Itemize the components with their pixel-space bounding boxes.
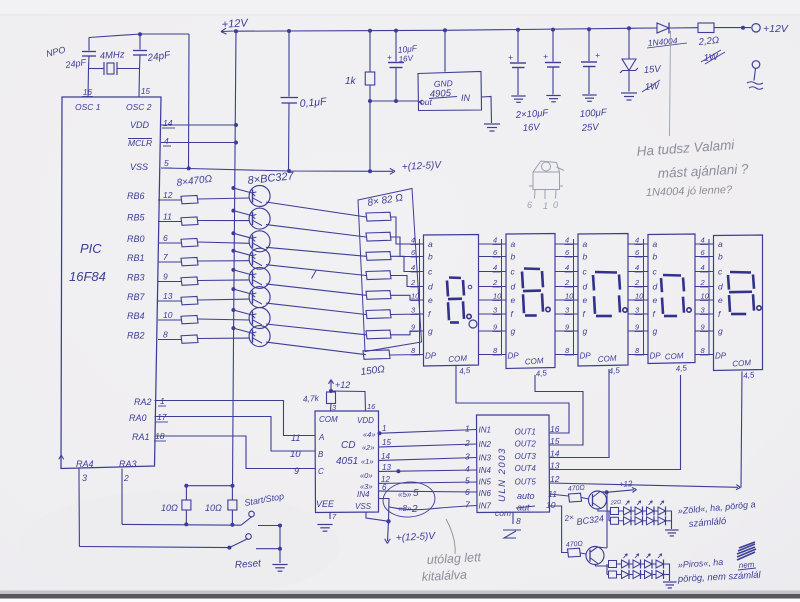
svg-text:4: 4 — [565, 236, 569, 245]
svg-text:RA2: RA2 — [134, 397, 152, 407]
svg-text:11: 11 — [291, 433, 300, 443]
svg-text:6: 6 — [382, 483, 387, 492]
svg-text:1: 1 — [543, 201, 548, 211]
node emitter RB3 — [231, 268, 235, 272]
svg-text:15: 15 — [382, 438, 391, 447]
svg-text:g: g — [428, 326, 433, 336]
capacitor 24pF left — [88, 38, 90, 51]
wire DS4 COM to OUT4 — [550, 375, 681, 470]
wire switch to gnd bus — [279, 526, 281, 549]
svg-text:8: 8 — [516, 516, 521, 526]
svg-text:2: 2 — [634, 278, 640, 287]
display DS1 pin 10 e — [414, 299, 424, 301]
svg-text:IN: IN — [461, 93, 471, 103]
crystal X1 4MHz — [103, 62, 105, 75]
transistor Q9 BC324 — [589, 491, 607, 509]
svg-text:IN2: IN2 — [479, 440, 492, 449]
pencil curve — [446, 519, 455, 554]
ground switches — [272, 564, 287, 566]
svg-text:DP: DP — [508, 352, 520, 361]
wire DS5 COM to OUT5 — [741, 372, 742, 488]
svg-text:15: 15 — [141, 87, 150, 96]
resistor base RB2 — [181, 335, 198, 343]
node 10ohm B bottom — [230, 523, 234, 527]
wire DS2 COM to OUT2 — [535, 375, 583, 445]
svg-text:8: 8 — [163, 330, 168, 340]
diode D1 1N4004 — [657, 23, 669, 33]
wire led right tie 2 — [662, 564, 670, 581]
display DS4 pin 8 DP — [628, 354, 648, 356]
svg-text:RA4: RA4 — [76, 459, 94, 469]
wire RA1 to C — [155, 436, 316, 469]
svg-text:5: 5 — [164, 158, 169, 168]
svg-text:IN3: IN3 — [479, 454, 492, 463]
wire +12V rail — [234, 28, 657, 31]
svg-text:7: 7 — [465, 500, 470, 510]
svg-text:out: out — [420, 97, 432, 107]
display DS1 body — [424, 235, 479, 367]
svg-text:4: 4 — [411, 263, 415, 272]
svg-text:MCLR: MCLR — [128, 138, 152, 148]
display DS3 pin 4 c — [555, 271, 578, 273]
wire RB4 to resistor — [158, 319, 181, 321]
wire RB6 to resistor — [158, 199, 181, 201]
node VSS 1k — [368, 169, 372, 173]
svg-text:1: 1 — [160, 396, 165, 406]
node rail-c01 — [287, 29, 291, 33]
svg-text:4: 4 — [635, 236, 639, 245]
wire led left tie — [608, 511, 610, 521]
regulator U2 4905 box — [418, 72, 482, 111]
wire VEE pin — [329, 513, 331, 520]
svg-text:e: e — [428, 295, 433, 305]
svg-text:7: 7 — [163, 252, 168, 262]
svg-text:A: A — [318, 433, 324, 442]
display DS3 pin 9 g — [555, 330, 578, 332]
node emitter RB1 — [231, 249, 235, 253]
paper crease line — [670, 31, 671, 136]
svg-text:25V: 25V — [580, 122, 600, 134]
wire collector RB3 — [266, 284, 366, 295]
svg-text:VSS: VSS — [130, 162, 148, 172]
svg-text:VSS: VSS — [355, 502, 372, 511]
svg-text:utólag lett: utólag lett — [426, 550, 481, 567]
wire crystal top — [89, 34, 189, 38]
pic left edge arrow mark — [61, 455, 64, 459]
ground leds red — [663, 581, 677, 583]
svg-text:b: b — [511, 252, 516, 262]
transistor Q7 BC327 — [249, 248, 270, 269]
display DS4 pin 9 g — [628, 330, 648, 332]
svg-text:10Ω: 10Ω — [161, 503, 178, 513]
display DS4 pin 4 a — [628, 243, 648, 245]
display DS1 pin 9 g — [414, 330, 424, 332]
transistor Q13 BC327 — [249, 287, 270, 308]
svg-text:COM: COM — [525, 356, 545, 366]
svg-text:1: 1 — [465, 424, 470, 434]
svg-text:g: g — [511, 326, 516, 336]
svg-text:VEE: VEE — [316, 499, 335, 509]
wire 4.7k to pin3 — [330, 404, 333, 412]
display DS2 pin 6 b — [479, 256, 507, 258]
svg-text:RB4: RB4 — [127, 311, 145, 321]
wire segment d to display — [390, 276, 424, 287]
svg-text:VDD: VDD — [130, 120, 150, 130]
svg-text:COM: COM — [319, 415, 338, 424]
display DS4 pin 4 c — [628, 271, 648, 273]
display DS1 pin 2 d — [414, 286, 424, 288]
svg-text:VDD: VDD — [357, 416, 374, 425]
svg-text:17: 17 — [157, 412, 167, 422]
terminal gnd — [752, 61, 760, 69]
svg-text:4: 4 — [701, 263, 705, 272]
svg-text:PIC: PIC — [80, 241, 102, 256]
wire 1k to rail7V — [369, 101, 371, 171]
svg-text:1W: 1W — [644, 81, 660, 93]
pin 8 gnd — [512, 512, 514, 524]
wire OUT5 extension — [550, 483, 739, 487]
svg-text:«3»: «3» — [360, 482, 373, 491]
svg-text:C: C — [318, 467, 324, 476]
transistor Q11 BC327 — [249, 208, 270, 229]
svg-text:RB7: RB7 — [127, 292, 146, 302]
svg-text:a: a — [511, 239, 516, 249]
svg-text:+(12-5)V: +(12-5)V — [396, 531, 437, 544]
display DS1 pin 8 DP — [414, 354, 424, 356]
display DS4 digit — [663, 274, 681, 277]
svg-text:RA0: RA0 — [129, 413, 147, 423]
to220 package sketch — [529, 161, 564, 199]
svg-text:10: 10 — [635, 292, 644, 301]
wire caps to VSS — [188, 34, 191, 168]
resistor R20 470ohm — [568, 548, 581, 557]
ic U3 CD4051 body — [315, 411, 379, 513]
display DS5 pin 4 a — [695, 243, 714, 245]
transistor Q10 BC327 — [249, 308, 270, 329]
svg-text:4MHz: 4MHz — [99, 49, 125, 62]
svg-text:IN4: IN4 — [479, 466, 492, 475]
svg-text:RB6: RB6 — [127, 191, 145, 201]
svg-text:2: 2 — [411, 504, 418, 515]
wire collector Q10 — [596, 565, 609, 567]
svg-text:a: a — [583, 239, 588, 249]
wire segment c to display — [390, 256, 424, 271]
display DS2 pin ladder — [501, 239, 503, 356]
svg-text:4,5: 4,5 — [459, 366, 472, 376]
svg-text:+: + — [508, 52, 513, 62]
svg-text:b: b — [653, 252, 658, 262]
display DS1 pin ladder — [419, 239, 421, 356]
wire RB3 to resistor — [158, 281, 181, 283]
resistor base RB4 — [181, 316, 198, 324]
resistor segment R13 — [366, 252, 391, 261]
transistor Q6 BC327 — [249, 231, 270, 252]
svg-text:g: g — [583, 326, 588, 336]
wire to ground — [279, 549, 281, 563]
svg-text:10: 10 — [546, 500, 556, 510]
wire base RB5 — [198, 220, 250, 222]
ic U1 PIC16F84 body — [61, 97, 161, 469]
ground VEE — [317, 524, 332, 526]
svg-text:4: 4 — [493, 236, 497, 245]
svg-text:5: 5 — [465, 476, 470, 486]
svg-text:16V: 16V — [398, 53, 414, 64]
bank enclosure — [358, 189, 422, 352]
svg-text:RB0: RB0 — [127, 234, 145, 244]
svg-text:16: 16 — [550, 424, 560, 434]
svg-text:18: 18 — [155, 431, 165, 441]
display DS4 decimal point — [687, 308, 691, 312]
svg-text:+: + — [595, 50, 600, 60]
svg-text:4: 4 — [635, 263, 639, 272]
wire segment a to display — [390, 217, 424, 244]
wire R19 to Q9 — [582, 498, 589, 500]
svg-text:com: com — [495, 508, 511, 518]
node emitter RB6 — [231, 186, 235, 190]
ink scribble — [737, 542, 756, 560]
display DS1 digit — [449, 276, 461, 279]
wire +12 to pin16 — [331, 391, 366, 411]
display DS3 pin 8 DP — [555, 354, 578, 356]
svg-text:15V: 15V — [643, 64, 662, 76]
svg-text:a: a — [428, 239, 433, 249]
wire segment b to display — [390, 237, 424, 257]
wire 2.2ohm to terminal — [714, 27, 751, 29]
wire segment g to display — [390, 331, 424, 335]
display DS4 body — [648, 234, 695, 364]
svg-text:OSC 2: OSC 2 — [126, 102, 152, 112]
wire DS3 COM to OUT3 — [550, 369, 610, 458]
svg-text:10Ω: 10Ω — [205, 503, 222, 513]
svg-text:RB3: RB3 — [127, 273, 145, 283]
display DS3 decimal point — [623, 308, 627, 312]
svg-text:10: 10 — [411, 292, 420, 301]
svg-text:«8»: «8» — [398, 504, 412, 513]
display DS4 pin 3 f — [628, 313, 648, 315]
svg-text:4: 4 — [164, 136, 169, 146]
node pullup bar left — [184, 484, 188, 488]
display DS4 pin 2 d — [628, 286, 648, 288]
wire base RB1 — [198, 260, 250, 262]
display DS5 body — [714, 235, 763, 371]
display DS5 pin 4 c — [695, 271, 714, 273]
wire start/stop row — [122, 523, 241, 526]
resistor segment R17 — [366, 330, 391, 339]
svg-text:14: 14 — [550, 449, 560, 459]
svg-text:2: 2 — [492, 278, 498, 287]
resistor base RB1 — [181, 258, 198, 266]
capacitor C2b 10uF — [552, 30, 554, 62]
wire ch5 to IN6 — [379, 491, 477, 492]
transistor Q10 BC324 — [586, 547, 604, 565]
svg-text:4,5: 4,5 — [608, 366, 621, 376]
svg-text:b: b — [583, 252, 588, 262]
terminal +12V out — [741, 26, 745, 30]
ic U4 ULN2003 body — [477, 415, 550, 513]
node rail-c3 — [587, 27, 591, 31]
wire RA3 down — [121, 469, 123, 525]
svg-text:9: 9 — [163, 272, 168, 282]
svg-text:COM: COM — [448, 354, 468, 364]
resistor R18 150ohm DP — [363, 350, 390, 359]
wire segment DP to display — [390, 354, 424, 357]
svg-text:«5»: «5» — [398, 490, 412, 499]
svg-text:e: e — [511, 295, 516, 305]
supply rail vertical (emitters) — [233, 31, 237, 485]
display DS5 pin 8 DP — [695, 354, 714, 356]
svg-text:RB2: RB2 — [127, 331, 145, 341]
display DS2 body — [506, 234, 555, 369]
svg-text:2: 2 — [410, 278, 416, 287]
capacitor 10uF 16V — [395, 31, 397, 62]
svg-text:d: d — [653, 282, 658, 292]
led chain green row1 — [611, 508, 619, 515]
svg-text:DP: DP — [580, 352, 592, 361]
display DS4 pin ladder — [643, 239, 645, 356]
svg-text:«1»: «1» — [361, 457, 374, 466]
switch reset — [229, 539, 248, 548]
node 10ohm A bottom — [184, 522, 188, 526]
svg-text:1: 1 — [382, 424, 386, 433]
display DS5 digit — [730, 271, 751, 274]
resistor base RB3 — [181, 277, 198, 285]
node 1k-out — [368, 99, 372, 103]
svg-text:IN1: IN1 — [479, 426, 491, 435]
display DS2 pin 10 e — [479, 299, 507, 301]
wire base RB6 — [198, 198, 250, 199]
wire ch2 to IN2 — [379, 444, 477, 447]
wire VSS 7V rail — [161, 168, 393, 171]
node rail-reg — [443, 28, 447, 32]
led chain red row1 — [609, 561, 617, 568]
svg-text:11: 11 — [163, 212, 172, 222]
svg-text:4: 4 — [565, 263, 569, 272]
wire OUT 11 to R19 — [550, 494, 569, 496]
display DS5 pin 6 b — [695, 256, 714, 258]
display DS3 pin 2 d — [555, 286, 578, 288]
arrow 7V rail — [390, 171, 395, 174]
wire VSS branch — [366, 513, 389, 522]
node VSS c01 — [287, 169, 291, 173]
node crystal top — [138, 32, 142, 36]
display DS5 pin 3 f — [695, 313, 714, 315]
display DS2 pin 2 d — [479, 286, 507, 288]
led chain green row2 — [611, 517, 619, 524]
display DS1 pin 6 b — [414, 256, 424, 258]
wire ch1 to IN3 — [379, 458, 477, 461]
wire collector RB1 — [266, 265, 366, 276]
svg-text:4,5: 4,5 — [675, 363, 688, 373]
display DS3 pin 3 f — [555, 313, 578, 315]
svg-text:IN4: IN4 — [357, 490, 370, 499]
svg-text:OSC 1: OSC 1 — [75, 102, 101, 112]
capacitor C3 100uF — [588, 29, 590, 61]
wire segment f to display — [390, 313, 424, 316]
resistor segment R11 — [366, 212, 391, 221]
display DS1 decimal point — [467, 314, 471, 318]
svg-text:B: B — [318, 450, 324, 459]
svg-text:RA1: RA1 — [132, 432, 150, 442]
svg-text:+: + — [387, 53, 392, 62]
display DS1 pin 4 c — [414, 271, 424, 273]
transistor Q9 BC327 — [249, 267, 270, 288]
svg-text:4051: 4051 — [336, 456, 358, 467]
node MCLR rail — [234, 141, 238, 145]
wire collector RB4 — [266, 324, 366, 335]
svg-text:16F84: 16F84 — [69, 269, 106, 284]
resistor 4.7k — [327, 392, 336, 404]
wire collector RB7 — [266, 303, 366, 314]
wire emitters tie — [606, 492, 608, 548]
svg-text:10: 10 — [565, 292, 574, 301]
svg-text:COM: COM — [732, 358, 752, 368]
display DS5 pin 10 e — [695, 299, 714, 301]
svg-text:3: 3 — [82, 473, 87, 483]
svg-text:+12V: +12V — [221, 17, 249, 31]
svg-text:4,5: 4,5 — [535, 368, 548, 378]
wire RB7 to resistor — [158, 300, 181, 302]
svg-text:g: g — [653, 326, 658, 336]
svg-text:+12: +12 — [335, 380, 350, 390]
resistor base RB0 — [181, 239, 198, 247]
arrow +(12-5)V down — [388, 521, 389, 541]
svg-text:16V: 16V — [522, 122, 541, 134]
display DS4 pin 6 b — [628, 256, 648, 258]
svg-text:5: 5 — [413, 488, 419, 499]
svg-text:4: 4 — [493, 263, 497, 272]
display DS4 pin 10 e — [628, 299, 648, 301]
led chain red row2 — [609, 571, 617, 578]
svg-text:6: 6 — [465, 487, 470, 497]
wire RB0 to resistor — [158, 242, 181, 244]
svg-text:e: e — [718, 295, 723, 305]
svg-text:0: 0 — [553, 200, 558, 210]
svg-text:12: 12 — [550, 474, 560, 484]
svg-text:1W: 1W — [703, 51, 719, 64]
display DS1 pin 4 a — [414, 243, 424, 245]
svg-text:DP: DP — [715, 352, 727, 361]
switch start/stop — [241, 517, 252, 526]
display DS2 digit — [524, 267, 540, 270]
svg-text:3: 3 — [465, 452, 470, 462]
node 4.7k top — [329, 389, 333, 393]
svg-text:OUT5: OUT5 — [515, 478, 537, 487]
svg-text:DP: DP — [425, 352, 437, 361]
svg-text:4: 4 — [465, 464, 470, 474]
wire ch3 to IN5 — [379, 482, 477, 483]
svg-text:Reset: Reset — [234, 558, 262, 571]
resistor base RB6 — [181, 196, 198, 204]
wire RA2 to A — [155, 401, 316, 436]
display DS5 decimal point — [757, 306, 761, 310]
resistor base RB7 — [181, 297, 198, 305]
display DS5 pin 2 d — [695, 286, 714, 288]
svg-text:e: e — [583, 295, 588, 305]
+12V rail arrow — [222, 30, 234, 33]
wire collector RB6 — [266, 202, 366, 217]
svg-text:2×: 2× — [563, 513, 575, 523]
capacitor C2a 10uF — [517, 30, 519, 62]
svg-text:CD: CD — [341, 440, 355, 451]
svg-text:10: 10 — [163, 310, 173, 320]
node rail-VDDdrop — [234, 29, 238, 33]
wire rail to pullups — [186, 485, 232, 487]
resistor segment R12 — [366, 232, 391, 241]
svg-text:13: 13 — [382, 463, 391, 472]
resistor segment R16 — [366, 310, 391, 319]
display DS2 pin 9 g — [479, 330, 507, 332]
display DS1 pin 3 f — [414, 313, 424, 315]
